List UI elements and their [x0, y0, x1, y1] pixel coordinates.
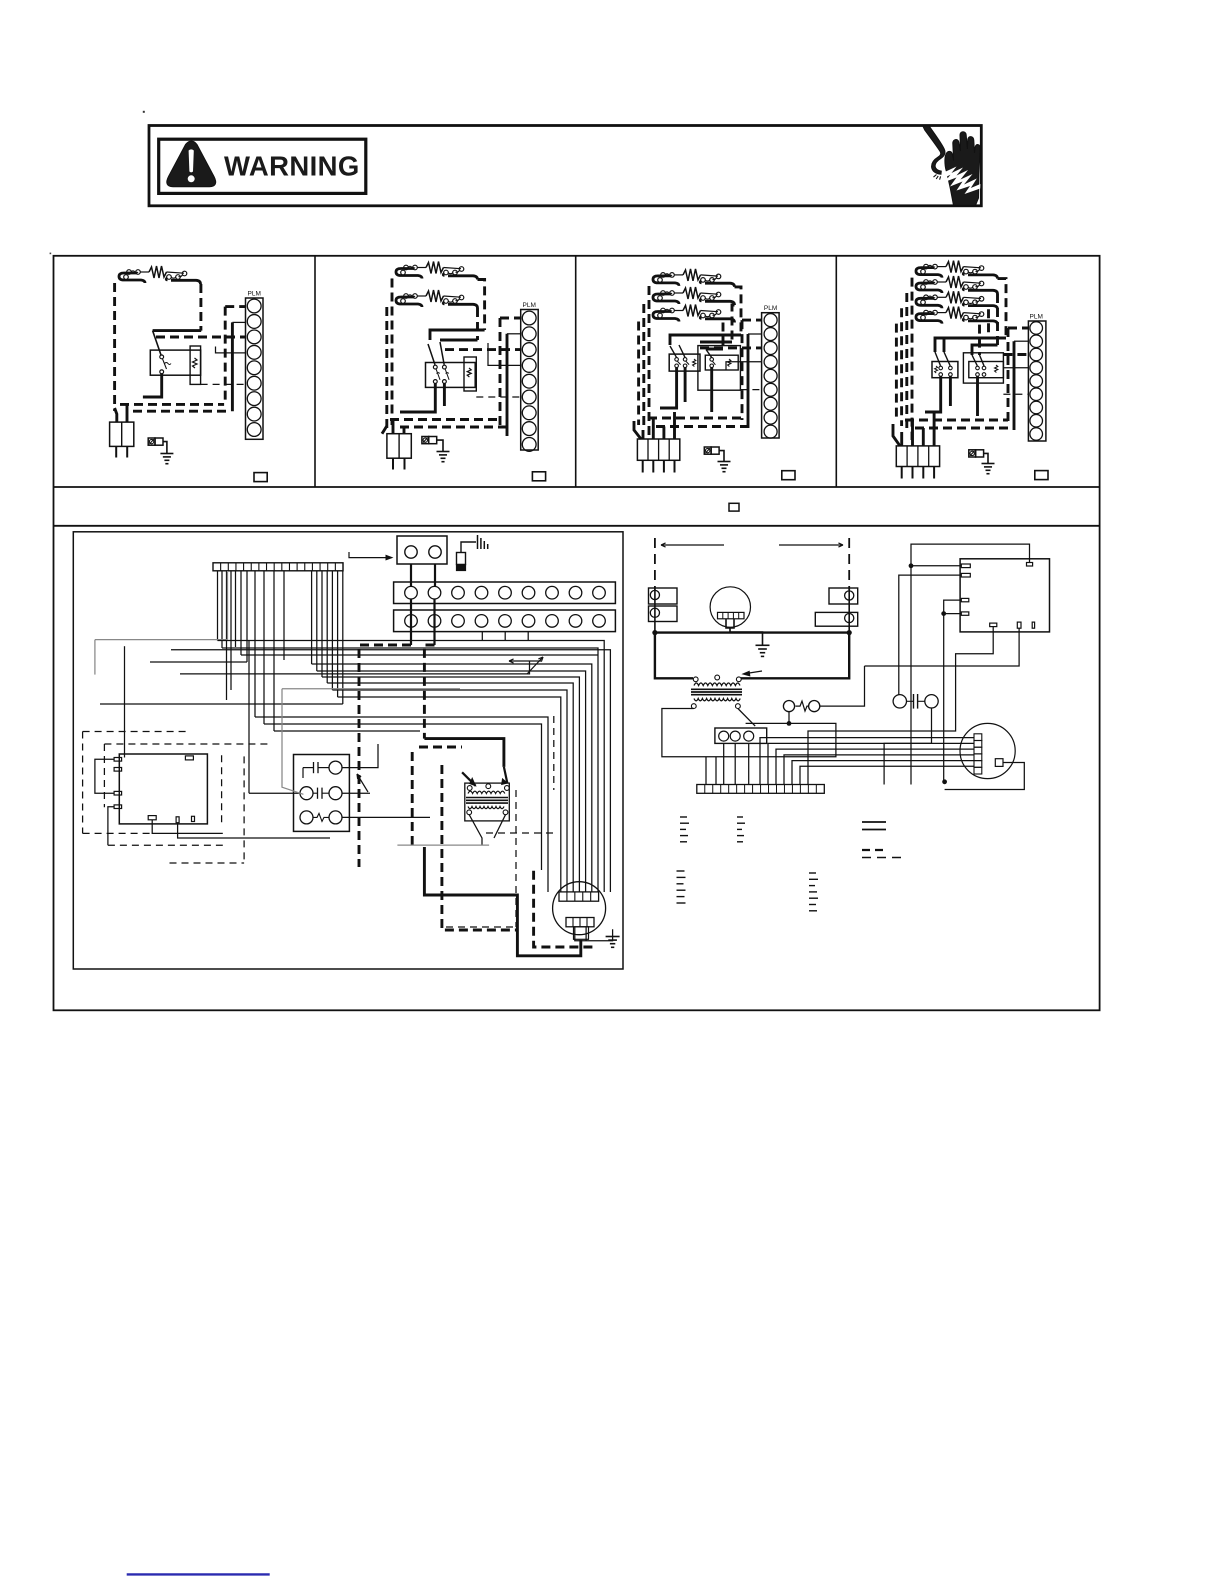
- panel4 wire PLM row1: [1008, 327, 1028, 330]
- panel1 wire PLM row1: [225, 305, 245, 308]
- panel4 relay switch arms: [935, 352, 941, 366]
- panel1 left supply wire: [113, 283, 116, 411]
- arrow at fan relay: [357, 774, 368, 792]
- panel1 lower run A: [120, 403, 224, 406]
- capacitor lower leads: [931, 708, 933, 743]
- warning banner outer box: [149, 126, 981, 206]
- panel2 relay switch arms: [428, 344, 435, 365]
- thick power wire: [655, 631, 849, 633]
- panel2 wire PLM row1: [500, 317, 521, 320]
- panel4 plug funnel: [893, 424, 900, 446]
- panel3 plug connector PL1: [637, 439, 679, 460]
- panel1 wire PLM row6: [201, 383, 246, 385]
- warning inner box: [159, 139, 366, 193]
- arrow at transformer tap: [746, 671, 762, 674]
- terminal box lead wires: [723, 743, 725, 784]
- panel1 plug leads: [115, 408, 117, 422]
- dashed run I: [170, 862, 245, 864]
- panel2 note square: [532, 472, 545, 481]
- transformer secondary wire left: [662, 709, 836, 757]
- dashed control loop C: [104, 743, 270, 745]
- legend dashed samples: [862, 849, 886, 851]
- integrated control board: [119, 754, 207, 824]
- panel3 note square: [782, 471, 795, 480]
- motor lower plug: [574, 927, 589, 940]
- motor ground wires: [575, 927, 613, 941]
- motor leads to ground: [726, 619, 734, 628]
- panel2 lower run B: [400, 426, 507, 429]
- warning triangle symbol: [167, 141, 216, 187]
- panel2 wire to relay contacts: [430, 330, 485, 340]
- thick dashed bottom path: [534, 871, 594, 947]
- panel4 lower run B: [915, 427, 1014, 430]
- panel3 heater element HE1: [661, 273, 666, 278]
- board wires: [124, 646, 126, 757]
- horizontal divider lower: [54, 525, 1100, 527]
- fan wires to ECM motor: [760, 738, 974, 785]
- panel3 wire PLM row1: [742, 319, 762, 322]
- thermostat terminal box: [715, 728, 767, 743]
- panel2 plug connector PL1: [387, 434, 411, 459]
- arrow to interlock switch: [349, 552, 388, 558]
- svg-text:PLM: PLM: [248, 291, 261, 298]
- panel4 sequencer relay M1: [932, 362, 958, 378]
- edge connector bus bar: [213, 563, 343, 571]
- fan relay contacts row1: [329, 761, 342, 774]
- panel1 lower run B: [133, 410, 231, 413]
- door interlock switch box: [397, 536, 447, 564]
- panel3 lower run A: [648, 417, 742, 420]
- panel1 note square: [254, 473, 267, 482]
- svg-text:WARNING: WARNING: [224, 151, 360, 182]
- transformer to terminal box diagonal: [738, 709, 755, 727]
- panel2 riser wire A: [499, 318, 502, 428]
- note square middle band: [729, 503, 739, 511]
- panel4 sequencer relay M2: [969, 362, 1004, 378]
- thick feed wires: [359, 645, 411, 867]
- stray dot 2: [50, 253, 52, 255]
- panel4 terminal strip PLM: [1028, 321, 1046, 441]
- board wire pin2: [899, 575, 962, 695]
- panel4 plug leads: [900, 432, 903, 446]
- panel4 plug connector PL1: [896, 446, 939, 467]
- panel4 wire PLM row6: [1003, 393, 1028, 395]
- panel4 wire PLM row4: [1003, 367, 1028, 369]
- svg-text:PLM: PLM: [764, 305, 777, 312]
- board wire bottom pin2: [865, 628, 1020, 666]
- panel1 wire to relay: [153, 329, 202, 332]
- panel3 wires to relay contacts: [670, 335, 741, 345]
- dashed riser H: [243, 756, 245, 863]
- footer link line: [127, 1573, 270, 1575]
- panel1 wire PLM row3: [156, 336, 246, 339]
- panel3 riser wire B: [747, 334, 750, 428]
- panel3 wire PLM row2: [748, 333, 762, 335]
- panel4 sequencer relay M2 outer: [963, 353, 1003, 383]
- grey riser wire: [94, 640, 96, 675]
- panel3 ground lug: [704, 447, 711, 454]
- bus bar drop wires mid: [254, 571, 256, 717]
- dashed control loop B: [83, 731, 189, 733]
- panel2 wire PLM row4: [488, 343, 521, 365]
- panel1 heater element HE1: [127, 270, 132, 275]
- panel1 riser wire A: [224, 307, 227, 404]
- panel2 element return wire 2: [476, 308, 479, 340]
- panel4 heater element HE4: [924, 310, 929, 315]
- panel2 heater element HE1: [404, 265, 409, 270]
- thick dashed near transformer: [419, 746, 462, 749]
- motor plug bottom: [566, 918, 594, 927]
- chassis ground comb: [477, 535, 479, 549]
- L2 terminal blocks: [829, 588, 858, 604]
- panel1 relay switch arm: [153, 331, 161, 355]
- panel2 ground lug: [422, 437, 429, 444]
- wire bundle horizontals: [95, 639, 228, 641]
- transformer T1: [693, 677, 698, 682]
- transformer secondary leads: [469, 815, 482, 845]
- panel3 plug funnel: [634, 421, 641, 439]
- junction dot L1: [652, 630, 657, 635]
- panel3 relay switch arms: [670, 346, 676, 357]
- panel2 heater element HE2: [404, 294, 409, 299]
- svg-text:PLM: PLM: [523, 302, 536, 309]
- panel3 heater element HE3: [661, 308, 666, 313]
- panel3 relay output wires: [660, 368, 677, 408]
- left schematic inner box: [73, 532, 623, 969]
- panel1 heater coil HTR: [190, 346, 201, 384]
- panel1 wire PLM row2: [232, 321, 245, 323]
- panel3 element return wires: [735, 287, 742, 335]
- panel4 left supply wires: [911, 278, 914, 440]
- ECM blower motor: [960, 723, 1015, 778]
- legend solid samples: [862, 821, 886, 823]
- junction dot L2: [847, 630, 852, 635]
- panel3 sequencer relay M1: [669, 354, 700, 371]
- panel3 plug leads: [642, 430, 645, 439]
- dashed control loop D: [103, 744, 105, 807]
- svg-text:PLM: PLM: [1030, 314, 1043, 321]
- strip jumper wires: [410, 564, 412, 586]
- terminal strip row2: [394, 610, 616, 632]
- bus bar drop wires left: [217, 571, 219, 641]
- panel2 heater coil HTR: [464, 357, 476, 391]
- interlock ground component: [457, 553, 466, 565]
- panel2 relay output wires: [400, 383, 435, 412]
- panel divider 1: [314, 256, 316, 487]
- door switch wires: [788, 712, 790, 724]
- wire row2 long run: [180, 661, 530, 674]
- panel3 sequencer relay M2 outer: [698, 346, 741, 391]
- door switch: [783, 701, 794, 712]
- panel4 lower run A: [905, 419, 1008, 422]
- panel1 riser wire B: [231, 322, 234, 411]
- panel2 sequencer relay M1: [426, 363, 476, 388]
- panel1 sequencer relay M1: [150, 350, 200, 375]
- blower motor: [553, 882, 606, 935]
- panel4 note square: [1035, 471, 1048, 480]
- panel4 heater element HE3: [924, 295, 929, 300]
- panel3 terminal strip PLM: [762, 313, 780, 438]
- panel2 wire PLM row3: [445, 348, 521, 351]
- line voltage dashed pole L1: [654, 538, 656, 590]
- panel3 wire PLM row3: [700, 346, 762, 349]
- board wire top loop: [911, 544, 1030, 784]
- terminal strip row1: [394, 582, 616, 604]
- panel3 lower run B: [656, 425, 748, 428]
- panel4 heater element HE2: [924, 280, 929, 285]
- panel4 wire PLM row3: [1003, 353, 1028, 356]
- legend dash group 5: [809, 872, 816, 874]
- panel2 lower run A: [390, 418, 500, 421]
- fan relay contacts row2: [300, 787, 313, 800]
- panel4 riser wire B: [1013, 341, 1016, 430]
- panel4 relay output wires: [925, 376, 941, 412]
- motor plug top: [559, 892, 599, 901]
- panel divider 2: [575, 256, 577, 487]
- power wire to transformer primary: [655, 633, 693, 679]
- panel3 wire PLM row4: [726, 362, 762, 370]
- dashed control loop F: [108, 844, 223, 846]
- dashed loop transformer: [553, 716, 555, 790]
- panel2 left supply wire 2: [385, 307, 388, 430]
- panel2 wire PLM row6: [476, 396, 520, 398]
- line voltage dashed pole L2: [848, 538, 850, 590]
- board wire bottom pin1: [808, 627, 993, 785]
- panel1 ground lug: [148, 438, 155, 445]
- thick wire to transformer: [424, 739, 504, 767]
- fan relay wires: [232, 767, 303, 769]
- dashed riser G: [221, 755, 223, 823]
- low voltage comb strip: [697, 785, 825, 794]
- ECM motor output loop: [945, 763, 1025, 790]
- panel4 ground lug: [969, 450, 976, 457]
- earth ground right diagram: [756, 644, 770, 646]
- panel4 wire PLM row2: [1014, 340, 1028, 342]
- stray dot: [143, 111, 145, 113]
- panel3 left supply wires: [648, 286, 651, 440]
- indoor blower motor top: [710, 587, 750, 627]
- panel2 left supply wire 1: [391, 279, 394, 426]
- electric shock hand icon: [923, 126, 981, 205]
- panel3 wire PLM row6: [740, 389, 761, 391]
- panel3 riser wire A: [741, 320, 744, 420]
- legend dash group 2: [737, 816, 743, 818]
- panel3 sequencer relay M2: [705, 355, 738, 370]
- panel4 riser wire A: [1007, 328, 1010, 422]
- line voltage arrows: [661, 544, 724, 546]
- panel3 heater element HE2: [661, 291, 666, 296]
- panel1 terminal strip PLM: [246, 298, 264, 439]
- panel4 heater element HE1: [924, 264, 929, 269]
- panel4 element return wires: [998, 279, 1007, 338]
- arrow onto transformer left: [462, 772, 476, 786]
- panel1 wire PLM row4: [216, 347, 246, 353]
- panel4 wires to relay contacts: [935, 338, 1006, 352]
- note arrow pair: [509, 660, 541, 662]
- panel2 terminal strip PLM: [521, 310, 539, 451]
- dashed control loop E: [83, 832, 153, 834]
- panel2 element return wire 1: [478, 280, 485, 331]
- panel2 riser wire B: [506, 334, 509, 436]
- panel1 plug connector PL1: [110, 422, 134, 446]
- legend dash group 1: [680, 816, 687, 818]
- bus bar drop wires right: [311, 571, 313, 664]
- grey wire to fan relay: [282, 689, 303, 795]
- panel2 plug leads: [382, 426, 387, 434]
- wire drop a: [883, 666, 885, 743]
- dashed control loop A: [82, 732, 84, 834]
- control board right: [960, 559, 1049, 632]
- low voltage transformer: [465, 783, 510, 821]
- panel divider 3: [835, 256, 837, 487]
- panel1 relay output wire: [143, 374, 162, 397]
- horizontal divider upper: [54, 486, 1100, 488]
- panel2 wire PLM row2: [507, 333, 521, 335]
- capacitor: [893, 695, 906, 708]
- diagram outer frame: [54, 256, 1100, 1011]
- board wire pins34: [944, 600, 962, 614]
- motor earth ground: [606, 936, 620, 938]
- fan relay contacts row3: [300, 811, 313, 824]
- wire long horizontals left: [100, 703, 343, 705]
- panel1 element return wire: [199, 284, 202, 331]
- legend dash group 4: [677, 870, 685, 872]
- thick bottom path: [424, 847, 580, 956]
- L1 terminal blocks: [649, 588, 678, 604]
- fan relay box: [294, 755, 350, 832]
